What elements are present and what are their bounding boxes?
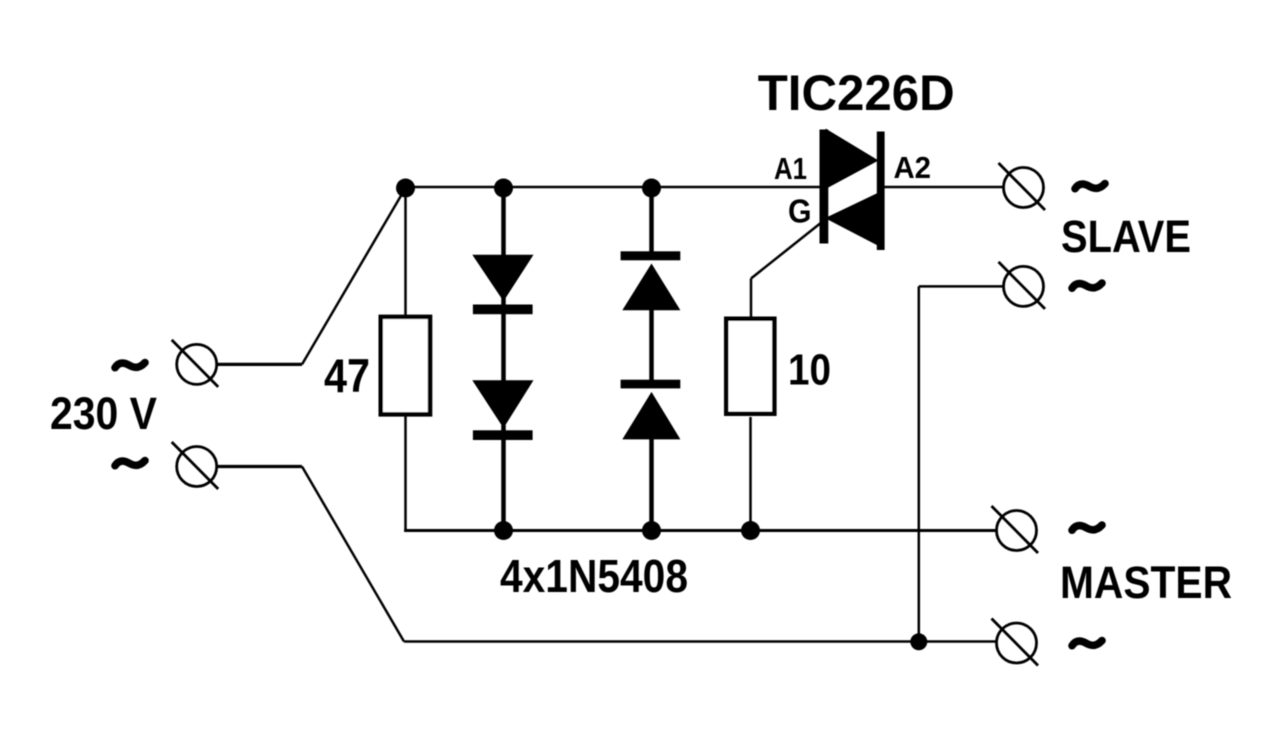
wire bottom to MASTER lower terminal bbox=[404, 640, 997, 643]
diode D1 chain1 top (pointing down) bbox=[472, 255, 533, 314]
node junction dot top of diode chain 1 bbox=[494, 179, 513, 198]
resistor R1 47 ohm bbox=[381, 317, 430, 415]
AC tilde SLAVE lower bbox=[1072, 283, 1102, 288]
svg-text:47: 47 bbox=[324, 349, 370, 402]
wire resistor 10 lower bbox=[749, 417, 752, 531]
wire SLAVE lower vertical down to bottom wire bbox=[918, 286, 921, 641]
terminal SLAVE upper bbox=[999, 163, 1046, 210]
node junction dot bottom of resistor 10 branch bbox=[741, 521, 760, 540]
wire diode chain 1 apex stub lower bbox=[501, 425, 506, 433]
wire 230V upper terminal horizontal bbox=[216, 363, 302, 366]
wire diode chain 2 bottom bbox=[649, 438, 654, 531]
AC tilde MASTER upper bbox=[1072, 525, 1102, 530]
wire SLAVE lower terminal horizontal bbox=[919, 285, 1004, 288]
svg-text:MASTER: MASTER bbox=[1060, 557, 1232, 608]
wire lower bus to MASTER upper terminal bbox=[404, 529, 996, 532]
svg-text:TIC226D: TIC226D bbox=[758, 64, 955, 121]
wire diode chain 2 middle bbox=[649, 309, 654, 380]
wire resistor 47 branch upper bbox=[404, 187, 407, 315]
node junction dot bottom of diode chain 1 bbox=[494, 521, 513, 540]
wire top bus from node A to triac A1 bbox=[405, 186, 821, 189]
wire triac A2 to SLAVE upper terminal bbox=[884, 186, 1004, 189]
diode D4 chain2 bottom (pointing up) bbox=[621, 380, 681, 440]
wire diode chain 1 bottom bbox=[501, 439, 506, 531]
svg-text:4x1N5408: 4x1N5408 bbox=[500, 550, 688, 602]
wire diagonal 230V lower to bottom wire bbox=[302, 467, 404, 642]
wire gate vertical to resistor 10 bbox=[750, 279, 753, 319]
AC tilde 230V lower bbox=[115, 461, 145, 466]
wire diagonal 230V upper to node A bbox=[302, 188, 406, 364]
terminal 230V lower bbox=[172, 442, 219, 489]
terminal MASTER lower bbox=[992, 619, 1039, 666]
svg-text:SLAVE: SLAVE bbox=[1061, 211, 1191, 262]
wire resistor 47 branch lower bbox=[404, 417, 407, 533]
wire diode chain 1 middle bbox=[501, 313, 506, 381]
AC tilde SLAVE upper bbox=[1075, 184, 1105, 189]
svg-text:A1: A1 bbox=[774, 151, 807, 186]
wire 230V lower terminal horizontal bbox=[216, 465, 302, 468]
svg-text:230 V: 230 V bbox=[50, 388, 157, 439]
diode D3 chain2 top (pointing up) bbox=[621, 251, 681, 310]
terminal SLAVE lower bbox=[999, 262, 1046, 309]
AC tilde MASTER lower bbox=[1072, 641, 1102, 646]
wire diode chain 1 apex stub upper bbox=[501, 298, 506, 307]
node junction dot bottom of diode chain 2 bbox=[642, 521, 661, 540]
wire gate diagonal from triac G bbox=[751, 218, 827, 279]
resistor R2 10 ohm bbox=[726, 319, 774, 414]
svg-text:A2: A2 bbox=[894, 150, 932, 185]
terminal MASTER upper bbox=[992, 506, 1039, 553]
node junction dot top of diode chain 2 bbox=[642, 179, 661, 198]
svg-text:10: 10 bbox=[788, 346, 831, 395]
AC tilde 230V upper bbox=[115, 363, 145, 368]
terminal 230V upper bbox=[172, 340, 219, 387]
svg-text:G: G bbox=[788, 193, 812, 230]
wire diode chain 1 top bbox=[501, 187, 506, 256]
triac TIC226D bbox=[820, 129, 885, 251]
node junction dot on bottom wire bbox=[910, 633, 927, 650]
diode D2 chain1 bottom (pointing down) bbox=[472, 380, 533, 440]
node A junction dot bbox=[396, 179, 415, 198]
wire diode chain 2 top bbox=[649, 187, 654, 252]
